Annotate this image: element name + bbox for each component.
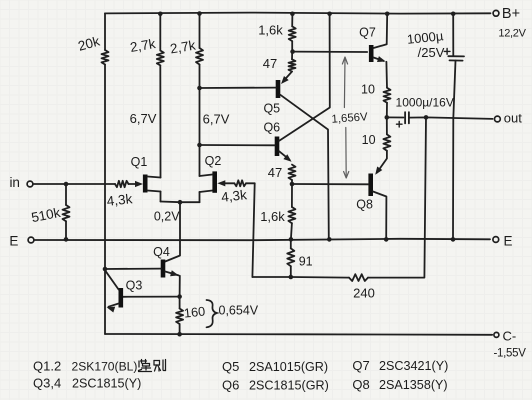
svg-text:4,3k: 4,3k — [221, 187, 248, 205]
svg-text:91: 91 — [299, 255, 313, 269]
svg-text:2SC1815(Y): 2SC1815(Y) — [72, 377, 141, 391]
svg-text:0,2V: 0,2V — [154, 210, 180, 224]
svg-text:1000µ/16V: 1000µ/16V — [396, 96, 454, 110]
svg-text:47: 47 — [268, 165, 282, 180]
svg-text:240: 240 — [353, 286, 375, 301]
svg-text:6,7V: 6,7V — [130, 111, 157, 126]
svg-text:Q4: Q4 — [153, 245, 170, 259]
svg-text:B+: B+ — [502, 6, 520, 22]
svg-text:Q2: Q2 — [205, 154, 222, 168]
svg-text:Q3,4: Q3,4 — [33, 376, 61, 391]
svg-text:Q5: Q5 — [263, 102, 280, 116]
svg-text:47: 47 — [263, 56, 277, 71]
svg-text:2SK170(BL): 2SK170(BL) — [72, 360, 138, 374]
svg-text:2,7k: 2,7k — [169, 38, 197, 57]
svg-text:2,7k: 2,7k — [129, 36, 157, 55]
svg-text:12,2V: 12,2V — [498, 28, 526, 40]
svg-text:1,656V: 1,656V — [331, 111, 368, 126]
svg-text:in: in — [9, 175, 20, 190]
svg-text:6,7V: 6,7V — [203, 112, 230, 127]
svg-text:Q6: Q6 — [263, 121, 280, 135]
svg-text:160: 160 — [183, 303, 206, 320]
svg-text:Q8: Q8 — [352, 377, 369, 392]
svg-text:/25V: /25V — [418, 45, 445, 60]
svg-text:20k: 20k — [76, 34, 101, 54]
svg-text:10: 10 — [362, 133, 376, 147]
svg-text:Q1.2: Q1.2 — [33, 359, 61, 374]
svg-text:0,654V: 0,654V — [219, 304, 259, 318]
svg-text:out: out — [504, 111, 522, 126]
svg-text:Q3: Q3 — [126, 279, 143, 293]
svg-text:C-: C- — [503, 329, 517, 344]
svg-text:10: 10 — [361, 83, 375, 97]
svg-text:2SA1015(GR): 2SA1015(GR) — [249, 360, 328, 374]
svg-text:Q7: Q7 — [352, 358, 369, 373]
svg-text:E: E — [504, 234, 513, 249]
svg-text:2SC1815(GR): 2SC1815(GR) — [249, 379, 329, 393]
svg-text:Q5: Q5 — [222, 359, 239, 374]
svg-text:2SC3421(Y): 2SC3421(Y) — [379, 359, 448, 373]
svg-text:E: E — [9, 234, 18, 249]
svg-text:2SA1358(Y): 2SA1358(Y) — [379, 378, 448, 392]
svg-text:1,6k: 1,6k — [258, 23, 283, 38]
svg-text:1,6k: 1,6k — [260, 209, 285, 224]
svg-text:-1,55V: -1,55V — [494, 348, 527, 360]
svg-text:Q8: Q8 — [356, 198, 373, 212]
svg-text:Q7: Q7 — [359, 26, 376, 40]
svg-text:4,3k: 4,3k — [106, 191, 133, 209]
svg-text:Q1: Q1 — [131, 155, 148, 169]
svg-text:Q6: Q6 — [222, 378, 239, 393]
